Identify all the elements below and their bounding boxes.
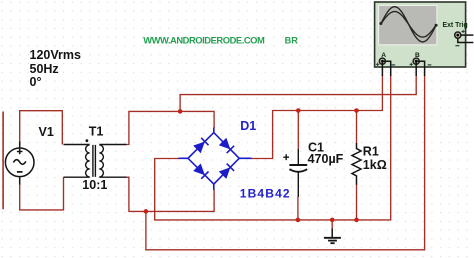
junction R1 bottom (354, 218, 359, 223)
wire AC bottom tap to scope channel B minus (bottom rail) (146, 75, 425, 250)
wire Ext Trig minus stub (458, 38, 474, 42)
junction node AC bottom (144, 209, 149, 214)
op oscilloscope XSC1 body (375, 2, 466, 67)
oscilloscope waveform large (381, 7, 437, 42)
svg-text:120Vrms: 120Vrms (30, 48, 81, 62)
wire R1 top tap (356, 111, 358, 144)
svg-text:10:1: 10:1 (82, 178, 107, 192)
wire C1 top tap (297, 111, 299, 150)
svg-text:0°: 0° (30, 75, 42, 89)
wire ground stub (331, 220, 333, 229)
wire T1 secondary bottom to bridge bottom (AC node 2) (127, 177, 215, 211)
wire scope B minus black stub (416, 61, 424, 76)
terminal Ext Trig (455, 30, 465, 46)
svg-text:D1: D1 (240, 119, 256, 133)
wire bridge DC+ to C1 R1 and scope A plus (positive rail) (251, 75, 382, 159)
svg-text:50Hz: 50Hz (30, 62, 59, 76)
diode bridge D1 (179, 128, 252, 191)
svg-text:T1: T1 (89, 125, 104, 139)
capacitor C1 (283, 149, 307, 197)
diode bottom-right (anode AC bottom, cathode DC+) (219, 164, 234, 179)
wire scope B plus black stub (415, 61, 417, 76)
wire scope A plus black stub (381, 61, 383, 76)
svg-text:1kΩ: 1kΩ (363, 158, 387, 172)
source V1 (5, 141, 34, 184)
junction node AC top (178, 109, 183, 114)
svg-text:Ext Trig: Ext Trig (443, 22, 468, 29)
svg-text:BR: BR (285, 35, 299, 45)
wire R1 bottom tap (356, 185, 358, 220)
wire V1 top to T1 primary top (20, 111, 63, 145)
junction ground tap (330, 218, 335, 223)
oscilloscope screen (379, 5, 437, 44)
svg-text:R1: R1 (363, 145, 379, 159)
wire scope A minus black stub (382, 61, 390, 76)
wire Ext Trig plus stub (461, 34, 473, 36)
wire AC top tap to scope channel B plus (180, 75, 416, 111)
junction C1 top (296, 108, 301, 113)
wire off-canvas left vertical (2, 112, 4, 210)
terminal B (410, 58, 432, 66)
junction C1 bottom (296, 218, 301, 223)
terminal A (376, 58, 395, 66)
ground (324, 229, 341, 244)
wire T1 secondary top to bridge top (AC node) (127, 111, 215, 144)
diode top-left (anode DC-, cathode AC top) (193, 138, 208, 153)
svg-text:1B4B42: 1B4B42 (240, 187, 291, 201)
svg-text:470µF: 470µF (308, 152, 344, 166)
junction R1 top (354, 108, 359, 113)
diode bottom-left (anode DC-, cathode AC bottom) (193, 164, 208, 179)
diode top-right (anode AC top, cathode DC+) (219, 138, 234, 153)
transformer T1 (64, 139, 127, 177)
wire bridge DC- ground rail to scope A minus (155, 75, 391, 220)
wire V1 bottom to T1 primary bottom (20, 177, 64, 210)
resistor R1 (352, 143, 361, 185)
wire C1 bottom tap (297, 197, 299, 220)
oscilloscope waveform small (381, 12, 437, 38)
svg-text:V1: V1 (39, 125, 54, 139)
svg-text:WWW.ANDROIDERODE.COM: WWW.ANDROIDERODE.COM (143, 34, 265, 45)
